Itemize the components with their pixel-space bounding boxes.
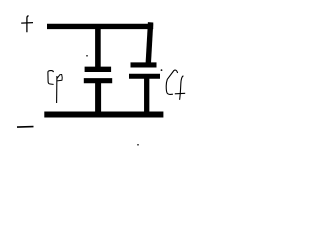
stray ink dot below bottom rail	[137, 144, 139, 146]
wire stub from top rail to Cp	[95, 28, 101, 68]
wire right vertical drop to Cf	[148, 22, 150, 63]
wire bottom rail	[44, 112, 163, 118]
wire stub from Cf to bottom rail	[144, 78, 149, 112]
- terminal	[17, 126, 34, 129]
+ terminal	[21, 16, 33, 32]
stray ink dot near Cp top wire	[86, 55, 88, 57]
wire top rail	[47, 24, 153, 29]
stray ink dot left of label Cf	[161, 69, 163, 71]
label Cf	[166, 70, 185, 100]
label Cp	[48, 71, 62, 103]
capacitor Cf	[129, 65, 160, 76]
wire stub from Cp to bottom rail	[95, 83, 101, 112]
capacitor Cp	[84, 69, 112, 80]
